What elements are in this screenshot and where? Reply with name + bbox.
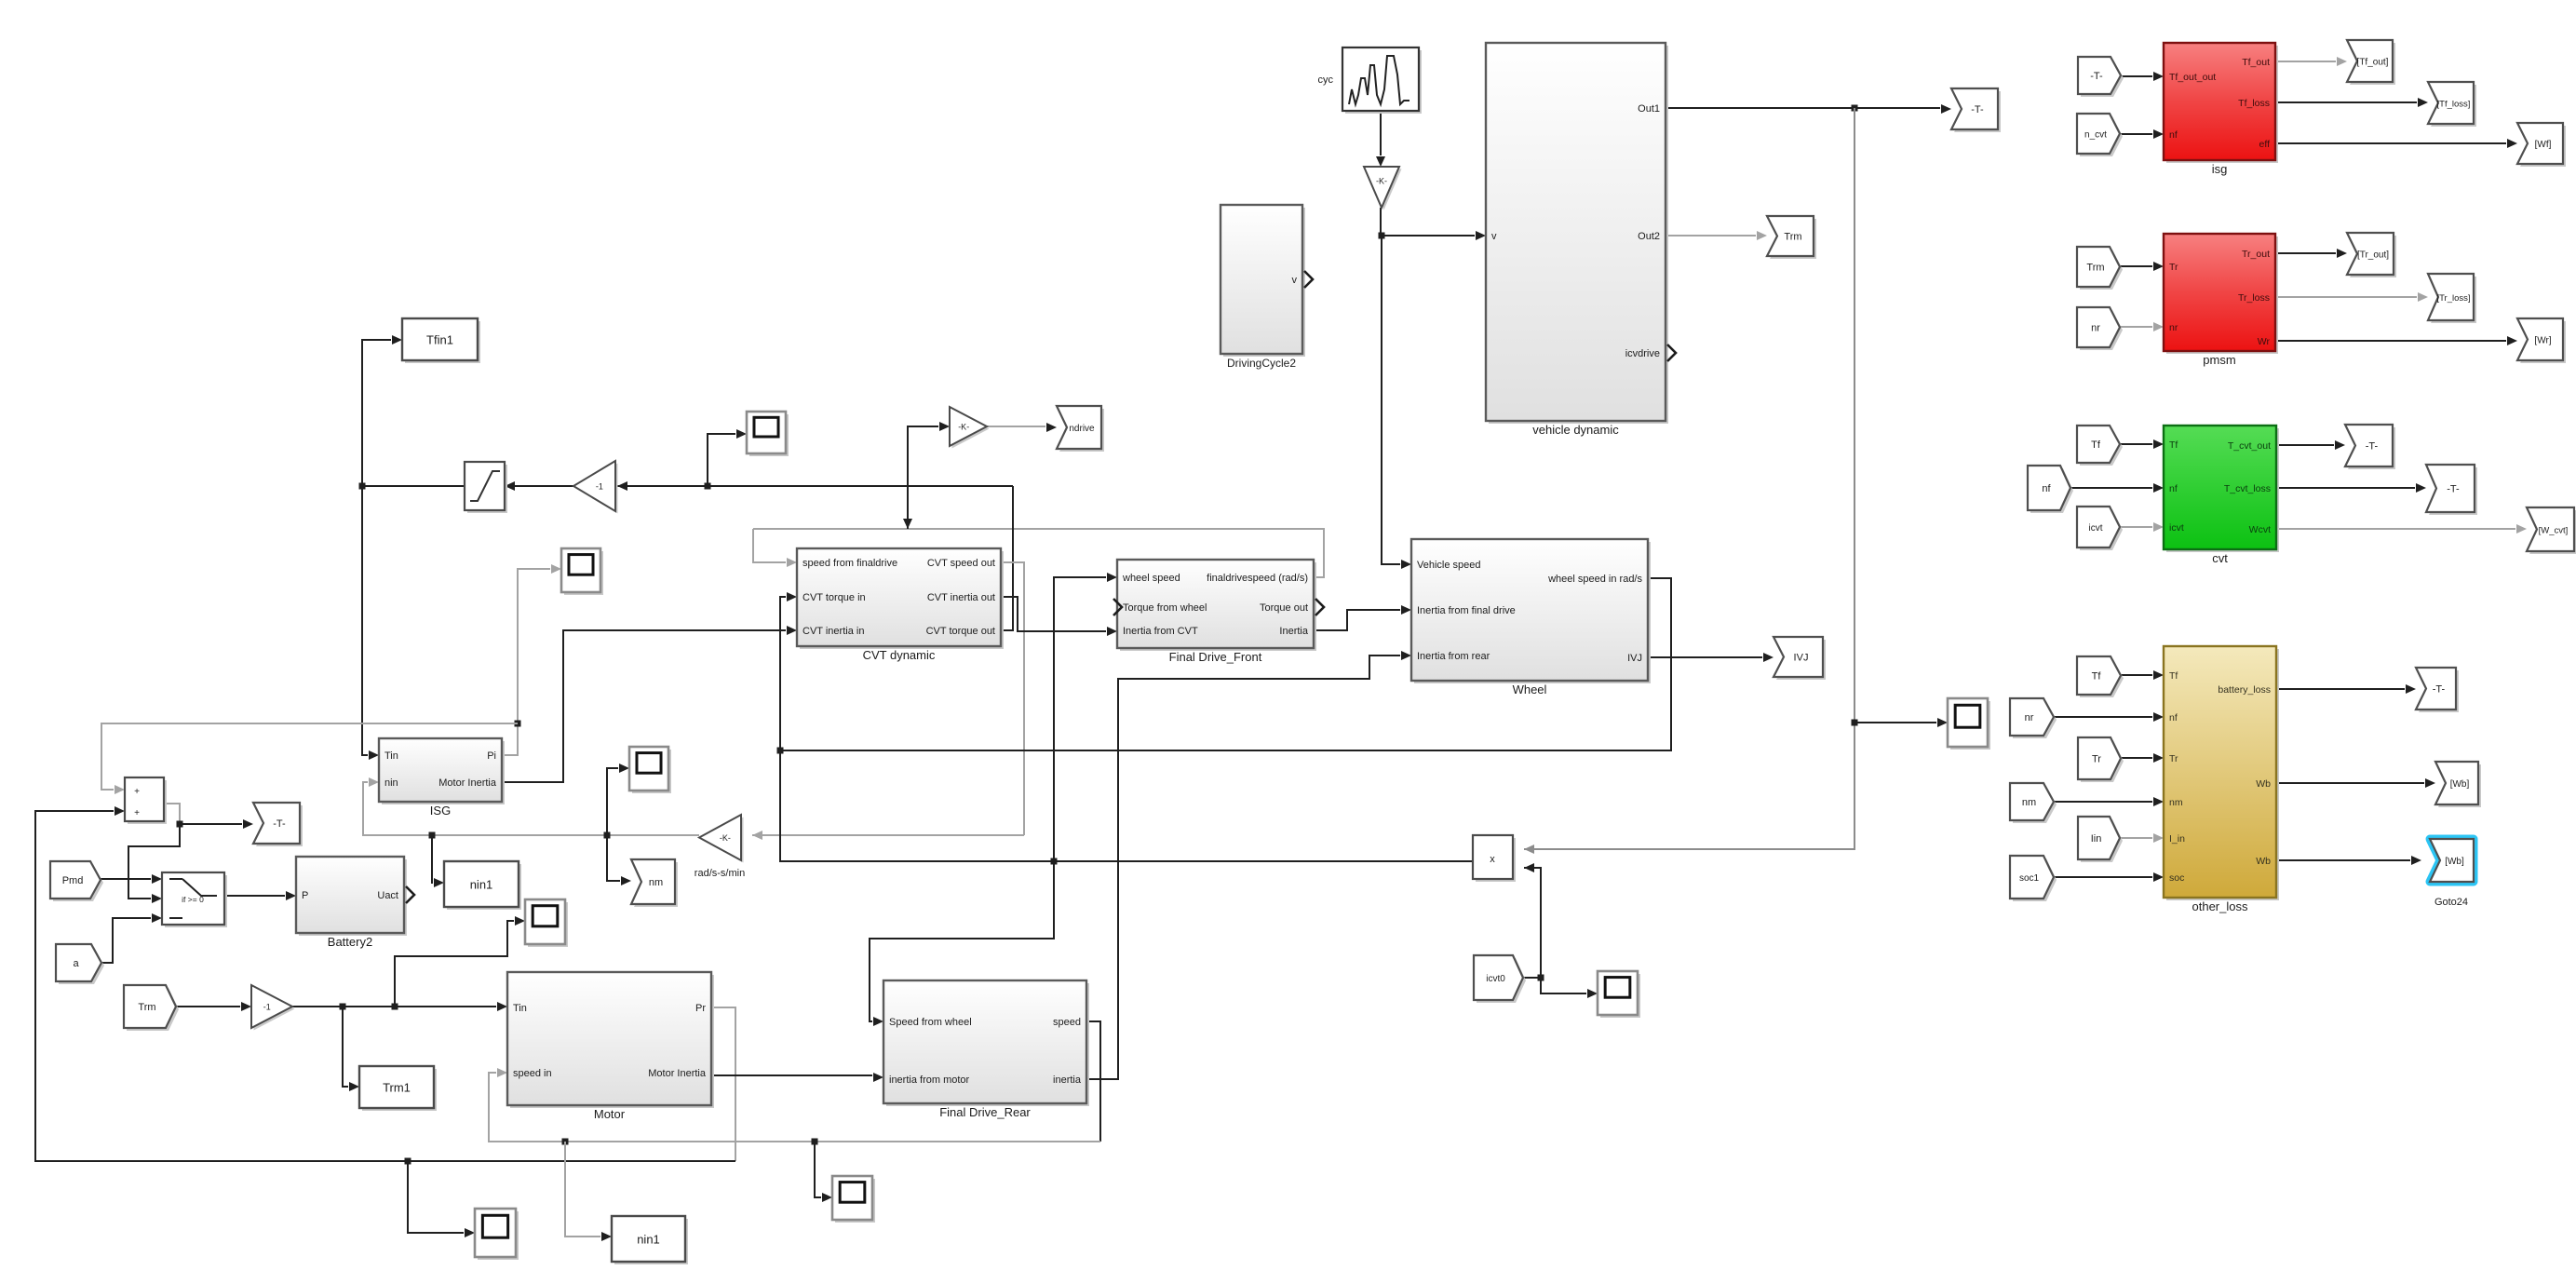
svg-text:a: a	[73, 958, 79, 969]
svg-text:CVT inertia in: CVT inertia in	[802, 626, 864, 637]
svg-text:icvt: icvt	[2089, 523, 2103, 534]
svg-text:cyc: cyc	[1318, 74, 1334, 86]
svg-text:icvt: icvt	[2169, 522, 2184, 534]
svg-text:-T-: -T-	[1971, 104, 1984, 115]
svg-text:speed: speed	[1053, 1017, 1081, 1028]
svg-text:Final Drive_Rear: Final Drive_Rear	[939, 1105, 1031, 1119]
svg-text:I_in: I_in	[2169, 833, 2185, 845]
svg-text:inertia: inertia	[1053, 1075, 1082, 1086]
svg-text:nin1: nin1	[637, 1233, 660, 1247]
svg-text:ndrive: ndrive	[1069, 424, 1095, 434]
svg-text:Tr_loss: Tr_loss	[2238, 292, 2270, 304]
svg-text:v: v	[1491, 231, 1497, 242]
svg-text:DrivingCycle2: DrivingCycle2	[1227, 357, 1296, 370]
svg-text:T_cvt_loss: T_cvt_loss	[2224, 483, 2271, 494]
svg-text:[Tr_loss]: [Tr_loss]	[2436, 293, 2470, 304]
svg-text:speed from finaldrive: speed from finaldrive	[802, 558, 897, 569]
svg-text:nin: nin	[384, 777, 398, 789]
svg-text:Pi: Pi	[487, 750, 496, 762]
svg-text:Tr: Tr	[2092, 754, 2101, 765]
svg-text:[Tf_out]: [Tf_out]	[2357, 58, 2389, 68]
svg-text:finaldrivespeed (rad/s): finaldrivespeed (rad/s)	[1207, 573, 1308, 584]
svg-text:Vehicle speed: Vehicle speed	[1417, 560, 1481, 571]
svg-text:-1: -1	[596, 482, 603, 492]
svg-text:v: v	[1292, 275, 1298, 286]
svg-text:Wr: Wr	[2258, 336, 2271, 347]
svg-text:CVT torque out: CVT torque out	[926, 626, 995, 637]
svg-text:CVT torque in: CVT torque in	[802, 592, 866, 603]
svg-text:wheel speed: wheel speed	[1122, 573, 1180, 584]
svg-text:[Tf_loss]: [Tf_loss]	[2437, 100, 2471, 110]
svg-text:Tf: Tf	[2169, 670, 2178, 682]
svg-text:IVJ: IVJ	[1627, 653, 1642, 664]
svg-text:soc1: soc1	[2019, 873, 2040, 884]
svg-text:Trm: Trm	[1784, 232, 1801, 243]
svg-text:-1: -1	[263, 1003, 271, 1012]
svg-text:-T-: -T-	[2090, 71, 2103, 82]
svg-text:Tfin1: Tfin1	[426, 333, 453, 347]
svg-text:Trm: Trm	[138, 1002, 155, 1013]
svg-text:+: +	[134, 808, 140, 818]
svg-text:Tr_out: Tr_out	[2242, 249, 2270, 260]
svg-text:-K-: -K-	[720, 833, 731, 843]
svg-text:Pr: Pr	[695, 1003, 706, 1014]
svg-text:Tr: Tr	[2169, 262, 2178, 273]
svg-text:[W_cvt]: [W_cvt]	[2539, 526, 2569, 536]
svg-text:Inertia: Inertia	[1279, 626, 1308, 637]
svg-text:CVT speed out: CVT speed out	[927, 558, 995, 569]
svg-text:Wb: Wb	[2256, 778, 2271, 790]
svg-text:nm: nm	[2169, 797, 2183, 808]
svg-text:nr: nr	[2091, 323, 2100, 334]
svg-text:IVJ: IVJ	[1794, 653, 1809, 664]
svg-text:Tr: Tr	[2169, 753, 2178, 764]
svg-text:eff: eff	[2259, 139, 2271, 150]
svg-text:[Wb]: [Wb]	[2450, 779, 2470, 790]
svg-text:Out2: Out2	[1638, 231, 1660, 242]
svg-text:Motor Inertia: Motor Inertia	[648, 1068, 707, 1079]
svg-text:other_loss: other_loss	[2192, 899, 2248, 913]
svg-text:nm: nm	[649, 877, 663, 888]
svg-text:Out1: Out1	[1638, 103, 1660, 115]
svg-text:-K-: -K-	[1376, 176, 1387, 185]
svg-text:wheel speed in rad/s: wheel speed in rad/s	[1547, 574, 1642, 585]
svg-text:Tf_loss: Tf_loss	[2238, 98, 2270, 109]
svg-text:-T-: -T-	[2366, 441, 2379, 453]
svg-text:+: +	[134, 787, 140, 797]
svg-text:nf: nf	[2169, 129, 2178, 141]
svg-text:Wb: Wb	[2256, 856, 2271, 867]
svg-text:Tf_out: Tf_out	[2242, 57, 2270, 68]
svg-text:Inertia from CVT: Inertia from CVT	[1123, 626, 1198, 637]
svg-text:x: x	[1490, 854, 1495, 865]
svg-text:Iin: Iin	[2091, 833, 2102, 845]
svg-text:Torque from wheel: Torque from wheel	[1123, 602, 1207, 614]
svg-text:Tin: Tin	[384, 750, 398, 762]
svg-text:[Tr_out]: [Tr_out]	[2357, 250, 2389, 261]
svg-text:soc: soc	[2169, 872, 2184, 884]
svg-text:Wheel: Wheel	[1513, 683, 1547, 696]
svg-text:nf: nf	[2169, 712, 2178, 723]
svg-text:Motor: Motor	[594, 1107, 626, 1121]
svg-text:vehicle dynamic: vehicle dynamic	[1532, 423, 1619, 437]
svg-text:Tf: Tf	[2169, 439, 2178, 451]
svg-text:nr: nr	[2025, 712, 2034, 723]
svg-text:Tf: Tf	[2092, 671, 2102, 683]
svg-text:-T-: -T-	[2433, 684, 2446, 696]
svg-text:battery_loss: battery_loss	[2218, 684, 2271, 696]
svg-text:nr: nr	[2169, 322, 2178, 333]
svg-text:cvt: cvt	[2212, 551, 2228, 565]
svg-text:-K-: -K-	[958, 423, 969, 432]
svg-text:Tf: Tf	[2091, 439, 2101, 451]
svg-text:rad/s-s/min: rad/s-s/min	[695, 868, 745, 879]
svg-text:nin1: nin1	[470, 878, 493, 892]
svg-text:-T-: -T-	[273, 818, 286, 830]
svg-text:[Wr]: [Wr]	[2534, 336, 2551, 346]
svg-text:if >= 0: if >= 0	[182, 895, 204, 904]
svg-text:Trm: Trm	[2086, 263, 2104, 274]
svg-text:Trm1: Trm1	[383, 1081, 411, 1095]
svg-text:Torque out: Torque out	[1260, 602, 1308, 614]
svg-text:-T-: -T-	[2447, 484, 2460, 495]
svg-text:isg: isg	[2212, 162, 2228, 176]
svg-text:Tin: Tin	[513, 1003, 527, 1014]
svg-text:ISG: ISG	[430, 804, 451, 818]
svg-text:T_cvt_out: T_cvt_out	[2228, 440, 2271, 452]
svg-text:CVT inertia out: CVT inertia out	[927, 592, 995, 603]
svg-text:icvdrive: icvdrive	[1625, 348, 1660, 359]
svg-text:nf: nf	[2169, 483, 2178, 494]
svg-text:Tf_out_out: Tf_out_out	[2169, 72, 2216, 83]
svg-text:Speed from wheel: Speed from wheel	[889, 1017, 972, 1028]
svg-text:Inertia from final drive: Inertia from final drive	[1417, 605, 1516, 616]
svg-text:Uact: Uact	[377, 890, 398, 901]
svg-text:Pmd: Pmd	[62, 875, 84, 886]
svg-text:n_cvt: n_cvt	[2084, 130, 2107, 141]
svg-text:P: P	[302, 890, 308, 901]
svg-text:nf: nf	[2042, 483, 2051, 494]
svg-text:Goto24: Goto24	[2434, 897, 2468, 908]
svg-text:Motor Inertia: Motor Inertia	[438, 777, 497, 789]
svg-text:Battery2: Battery2	[328, 935, 372, 949]
svg-text:inertia from motor: inertia from motor	[889, 1075, 970, 1086]
svg-text:speed in: speed in	[513, 1068, 552, 1079]
svg-text:Wcvt: Wcvt	[2249, 524, 2271, 535]
svg-text:CVT dynamic: CVT dynamic	[863, 648, 936, 662]
svg-text:icvt0: icvt0	[1486, 974, 1505, 984]
svg-text:Inertia from rear: Inertia from rear	[1417, 651, 1490, 662]
svg-text:Final Drive_Front: Final Drive_Front	[1169, 650, 1262, 664]
svg-text:[Wf]: [Wf]	[2535, 140, 2552, 150]
svg-text:nm: nm	[2022, 797, 2036, 808]
svg-text:pmsm: pmsm	[2203, 353, 2235, 367]
svg-text:[Wb]: [Wb]	[2445, 857, 2464, 867]
